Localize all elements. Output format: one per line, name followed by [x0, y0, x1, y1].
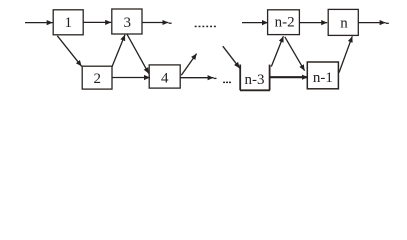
top ellipsis dots [195, 26, 197, 28]
node n box [328, 9, 358, 35]
wire thick arrow n-3 to n-1 [270, 76, 308, 78]
wire diagonal arrow 4 up-right toward dots [181, 54, 196, 76]
svg-text:n-1: n-1 [313, 70, 333, 86]
svg-text:2: 2 [94, 71, 102, 87]
wire diagonal arrow n-3 to n-2 [271, 36, 283, 66]
wire stub after arrow 4 head [214, 77, 217, 79]
wire arrow n-2 to n [299, 22, 327, 24]
wire diagonal arrow n-2 to n-1 [285, 37, 305, 71]
node n-1 box [307, 62, 338, 89]
wire stub after output arrowhead [386, 22, 389, 24]
wire diagonal arrow from dots down into n-3 [223, 46, 240, 68]
node 1 box [53, 10, 83, 35]
svg-text:n-2: n-2 [275, 15, 295, 31]
wire diagonal arrow n-1 to n [339, 36, 352, 72]
wire arrow 4 to right (toward bottom dots) [180, 77, 213, 79]
node n-2 box [268, 10, 300, 35]
node 4 box [149, 65, 180, 88]
wire diagonal arrow 1 to 2 [57, 36, 81, 67]
svg-text:n-3: n-3 [245, 72, 265, 88]
wire output arrow from n [358, 22, 385, 24]
wire arrow 2 to 4 [112, 77, 150, 79]
wire diagonal arrow 3 to 4 [127, 34, 149, 73]
wire arrow from dots into n-2 [242, 22, 268, 24]
svg-text:1: 1 [65, 15, 73, 31]
node 2 box [82, 66, 112, 89]
svg-text:n: n [340, 15, 348, 31]
node 3 box [112, 9, 142, 34]
wire stub after arrowhead [169, 22, 172, 24]
node n-3 box (open top) [240, 65, 270, 91]
bottom ellipsis dots [223, 82, 225, 84]
wire input arrow into node 1 [25, 22, 53, 24]
wire arrow 3 to right (toward dots) [142, 22, 168, 24]
wire diagonal arrow 2 to 3 [112, 35, 125, 67]
svg-text:3: 3 [123, 15, 131, 31]
svg-text:4: 4 [161, 70, 169, 86]
wire arrow 1 to 3 [83, 21, 111, 23]
